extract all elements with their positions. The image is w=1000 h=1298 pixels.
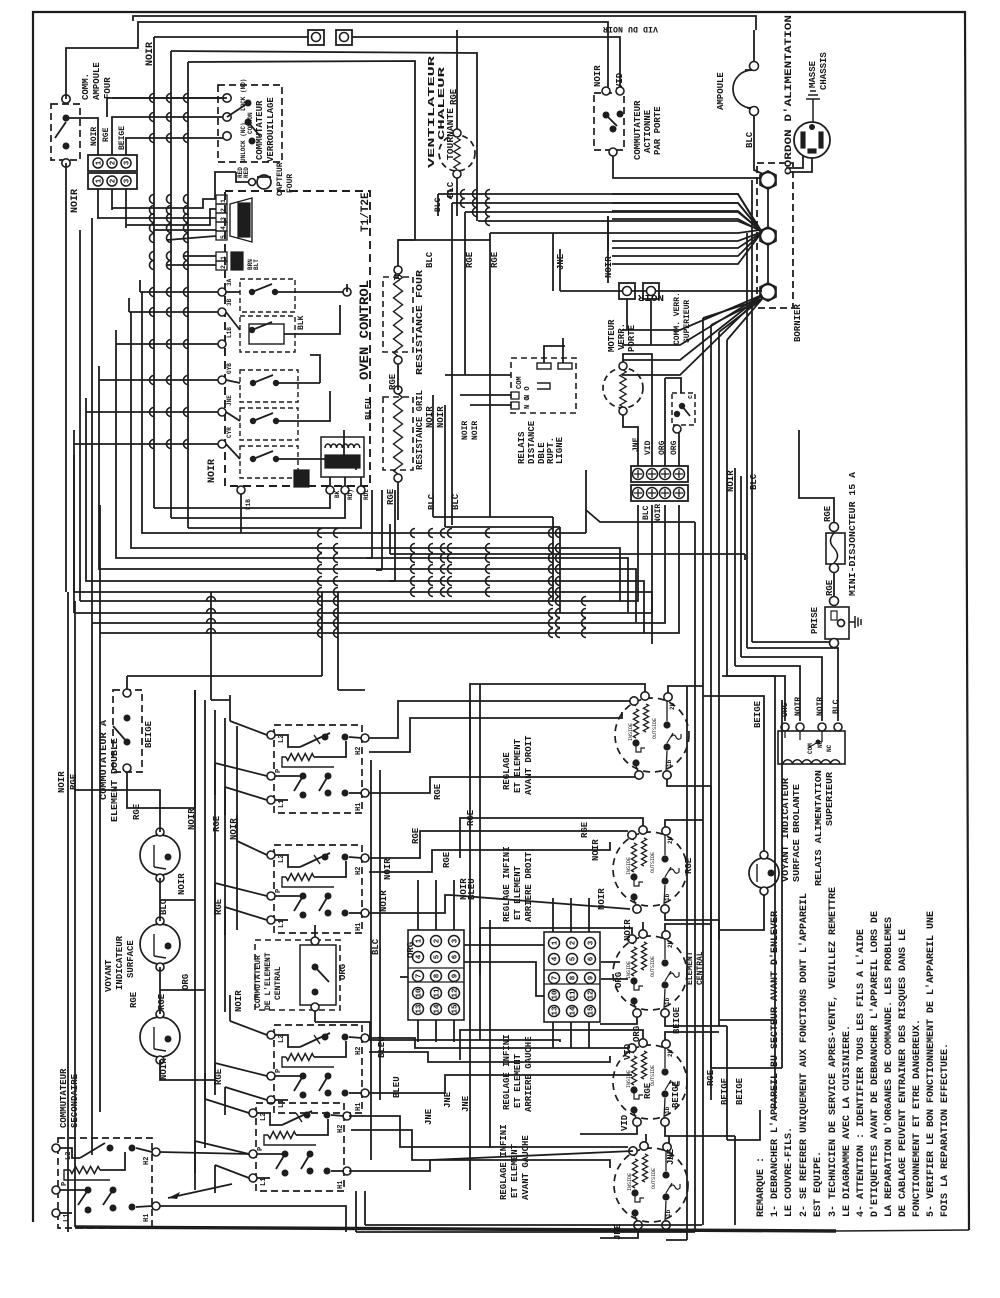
svg-text:BEIGE: BEIGE [735, 1077, 745, 1105]
svg-text:BK: BK [334, 490, 341, 498]
svg-text:1b: 1b [664, 893, 671, 901]
svg-text:BLC: BLC [434, 197, 443, 212]
surface element [613, 832, 687, 906]
svg-text:NO: NO [817, 740, 824, 748]
svg-text:ORG: ORG [338, 964, 348, 980]
svg-text:VID: VID [620, 1114, 630, 1131]
svg-text:LE COUVRE-FILS.: LE COUVRE-FILS. [784, 1127, 795, 1217]
left feed columns [210, 592, 212, 700]
connector block four [88, 155, 137, 171]
svg-text:3B: 3B [226, 298, 233, 306]
svg-text:8: 8 [570, 975, 578, 980]
svg-text:3: 3 [124, 178, 132, 183]
bornier fan wires [612, 194, 762, 232]
svg-text:4- ATTENTION : IDENTIFIER TOUS: 4- ATTENTION : IDENTIFIER TOUS LES FILS … [855, 929, 867, 1217]
svg-text:RGE: RGE [706, 1069, 716, 1086]
svg-text:CYR: CYR [226, 427, 233, 438]
svg-text:2b: 2b [667, 940, 674, 948]
svg-text:8: 8 [434, 973, 442, 978]
svg-text:NOIR: NOIR [234, 990, 244, 1012]
prise [830, 597, 839, 606]
svg-text:2: 2 [110, 160, 118, 165]
svg-text:BEIGE: BEIGE [753, 700, 763, 728]
svg-text:H1: H1 [355, 923, 363, 931]
svg-text:VID: VID [623, 1043, 633, 1060]
svg-text:11: 11 [570, 990, 578, 1000]
svg-text:BLEU: BLEU [364, 398, 374, 420]
svg-text:2: 2 [110, 178, 118, 183]
svg-text:2: 2 [220, 265, 227, 269]
svg-text:1: 1 [416, 938, 424, 943]
right column verticals bottom [686, 686, 688, 1240]
svg-text:H2: H2 [143, 1157, 151, 1165]
left long verticals bottom [67, 592, 69, 1232]
svg-text:AVANT DROIT: AVANT DROIT [524, 735, 534, 795]
svg-text:12: 12 [588, 990, 596, 1000]
svg-text:3: 3 [452, 938, 460, 943]
extra staircases [369, 712, 622, 752]
svg-text:BLC: BLC [749, 473, 759, 490]
svg-text:UNLOCK (NC): UNLOCK (NC) [240, 122, 247, 162]
terminal block [544, 932, 600, 1022]
svg-text:NOIR: NOIR [471, 421, 480, 440]
crossing bumps texture [150, 94, 155, 103]
svg-text:CORDON D'ALIMENTATION: CORDON D'ALIMENTATION [783, 15, 795, 175]
svg-text:MINI-DISJONCTEUR 15 A: MINI-DISJONCTEUR 15 A [848, 471, 858, 596]
svg-text:JNE: JNE [443, 1091, 453, 1108]
right beige bus [774, 676, 776, 1110]
svg-text:P: P [257, 1147, 265, 1151]
switch verrouillage [218, 85, 282, 162]
svg-text:BEIGE: BEIGE [144, 720, 154, 748]
svg-text:REGLAGE INFINI: REGLAGE INFINI [502, 1034, 512, 1110]
svg-text:JNE: JNE [613, 1223, 623, 1240]
connector 2x4 [631, 466, 688, 482]
oc connector strip1 [216, 195, 227, 204]
svg-text:JNE: JNE [424, 1108, 434, 1125]
svg-text:2: 2 [220, 208, 227, 212]
lamp connections [75, 790, 160, 832]
main cross bundle1 [141, 291, 143, 293]
svg-text:P: P [275, 1069, 283, 1073]
svg-text:FOUR: FOUR [103, 77, 113, 99]
svg-text:NOIR: NOIR [654, 504, 663, 523]
svg-text:NOIR: NOIR [207, 459, 218, 483]
block A-B connectors [464, 944, 544, 946]
svg-text:RESISTANCE GRIL: RESISTANCE GRIL [415, 390, 425, 470]
svg-text:RGE: RGE [490, 251, 500, 268]
svg-text:SUPERIEUR: SUPERIEUR [825, 771, 835, 826]
svg-text:NOIR: NOIR [593, 65, 603, 87]
svg-text:ET ELEMENT: ET ELEMENT [513, 865, 523, 920]
box L-side diagonals [230, 721, 267, 735]
svg-text:COMMUTATEUR: COMMUTATEUR [633, 100, 643, 160]
svg-text:OVEN CONTROL: OVEN CONTROL [357, 280, 372, 380]
svg-text:REMARQUE :: REMARQUE : [756, 1157, 767, 1217]
bottom long horizontals [356, 1231, 695, 1233]
resistance gril [394, 386, 402, 394]
bornier terminal strip [757, 163, 793, 308]
top bus wires [133, 16, 756, 30]
oven control box [225, 191, 370, 486]
svg-text:2b: 2b [669, 702, 676, 710]
right horizontals bottom [719, 1019, 775, 1021]
svg-text:7: 7 [552, 976, 560, 981]
svg-text:N C: N C [524, 396, 532, 409]
svg-text:SURFACE: SURFACE [126, 940, 136, 978]
svg-text:L1: L1 [63, 1214, 71, 1222]
svg-text:INSIDE: INSIDE [626, 857, 632, 875]
svg-text:ET ELEMENT: ET ELEMENT [510, 1143, 520, 1198]
svg-text:2: 2 [434, 938, 442, 943]
svg-text:1b: 1b [664, 997, 671, 1005]
main cross bundle2 [79, 230, 81, 601]
svg-text:NOIR: NOIR [623, 919, 633, 941]
svg-text:RELAIS: RELAIS [517, 431, 527, 464]
svg-text:NOIR: NOIR [726, 470, 736, 492]
svg-text:H1: H1 [143, 1214, 151, 1222]
svg-text:DISTANCE: DISTANCE [527, 420, 537, 464]
svg-text:NOIR: NOIR [70, 189, 81, 213]
svg-text:RGE: RGE [102, 127, 111, 142]
terminal block [408, 930, 464, 1020]
svg-text:3- TECHNICIEN DE SERVICE APRES: 3- TECHNICIEN DE SERVICE APRES-VENTE, VE… [828, 887, 839, 1217]
svg-text:6: 6 [588, 956, 596, 961]
svg-text:PAR PORTE: PAR PORTE [653, 106, 663, 155]
surface element [613, 936, 687, 1010]
svg-text:REGLAGE: REGLAGE [502, 752, 512, 790]
svg-text:INSIDE: INSIDE [626, 1070, 632, 1088]
svg-text:4: 4 [220, 226, 227, 230]
svg-text:VERROUILLAGE: VERROUILLAGE [266, 97, 276, 162]
svg-text:ORG: ORG [614, 972, 624, 988]
svg-text:ORG: ORG [406, 942, 416, 958]
svg-text:2b: 2b [667, 836, 674, 844]
svg-text:OUTSIDE: OUTSIDE [650, 956, 656, 977]
svg-text:1: 1 [96, 160, 104, 165]
svg-text:RESISTANCE FOUR: RESISTANCE FOUR [415, 269, 425, 375]
svg-text:AMPOULE: AMPOULE [92, 62, 102, 100]
svg-text:AMPOULE: AMPOULE [716, 72, 726, 110]
svg-text:5: 5 [434, 954, 442, 959]
svg-text:ORG: ORG [181, 974, 191, 990]
svg-text:BLC: BLC [427, 493, 437, 510]
box H-side to element staircases [369, 701, 630, 738]
svg-text:3: 3 [124, 160, 132, 165]
svg-text:1b: 1b [664, 1106, 671, 1114]
svg-text:7: 7 [416, 974, 424, 979]
svg-text:JNE: JNE [226, 395, 233, 406]
svg-text:1: 1 [220, 256, 227, 260]
oc connector strip2 [216, 252, 227, 261]
svg-text:BLEU: BLEU [467, 878, 477, 900]
svg-text:14: 14 [434, 1004, 442, 1014]
svg-text:5- VERIFIER LE BON FONCTIONNEM: 5- VERIFIER LE BON FONCTIONNEMENT DE L'A… [925, 911, 937, 1217]
svg-text:10: 10 [552, 990, 560, 1000]
svg-text:PRISE: PRISE [810, 606, 820, 634]
svg-text:H2: H2 [355, 867, 363, 875]
svg-text:1: 1 [552, 940, 560, 945]
svg-text:5: 5 [220, 235, 227, 239]
svg-text:SURFACE BROLANTE: SURFACE BROLANTE [792, 783, 802, 882]
svg-text:DE L'ELEMENT: DE L'ELEMENT [264, 952, 273, 1010]
svg-text:1: 1 [96, 178, 104, 183]
svg-text:INSIDE: INSIDE [626, 961, 632, 979]
oc transformer [321, 437, 364, 477]
svg-text:RGE: RGE [643, 1082, 653, 1099]
svg-text:NOIR: NOIR [177, 873, 187, 895]
infinite switch box [274, 845, 362, 933]
svg-text:3: 3 [588, 940, 596, 945]
lamp row connectors [194, 690, 196, 808]
svg-text:RGE: RGE [580, 821, 590, 838]
svg-text:LE DIAGRAMME AVEC LA CUISINIER: LE DIAGRAMME AVEC LA CUISINIERE. [842, 1025, 853, 1217]
svg-text:BEIGE: BEIGE [672, 1006, 682, 1034]
svg-text:5: 5 [570, 956, 578, 961]
svg-text:MOTEUR: MOTEUR [607, 319, 617, 352]
svg-text:BLC: BLC [832, 699, 841, 714]
svg-text:4: 4 [552, 956, 560, 961]
svg-text:RGE: RGE [69, 773, 79, 790]
svg-text:RED: RED [243, 167, 250, 178]
svg-text:RGE: RGE [411, 827, 421, 844]
element right-side runs [699, 685, 701, 687]
svg-text:2b: 2b [667, 1049, 674, 1057]
svg-text:DE CABLAGE PEUVENT ENTRAINER D: DE CABLAGE PEUVENT ENTRAINER DES RISQUES… [898, 929, 909, 1217]
bottom-left vertical columns extra [370, 760, 372, 1160]
capteur four [249, 179, 256, 186]
svg-text:4: 4 [416, 954, 424, 959]
svg-text:NOIR: NOIR [794, 697, 803, 716]
svg-text:JNE: JNE [666, 1148, 676, 1165]
svg-text:15: 15 [452, 1004, 460, 1014]
svg-text:ORG: ORG [632, 1026, 642, 1042]
svg-text:15: 15 [588, 1006, 596, 1016]
svg-text:VOYANT: VOYANT [104, 959, 114, 992]
svg-text:H1: H1 [355, 803, 363, 811]
svg-text:13: 13 [552, 1006, 560, 1016]
svg-text:H2: H2 [355, 1047, 363, 1055]
surface element [614, 1148, 688, 1222]
svg-text:RDL: RDL [363, 489, 370, 500]
svg-text:P: P [275, 769, 283, 773]
svg-text:COM: COM [516, 376, 524, 389]
svg-text:INSIDE: INSIDE [627, 1173, 633, 1191]
svg-text:RELAIS ALIMENTATION: RELAIS ALIMENTATION [814, 770, 824, 886]
svg-text:BLC: BLC [642, 505, 651, 520]
svg-text:INSIDE: INSIDE [628, 723, 634, 741]
svg-text:COMMON: COMMON [247, 112, 254, 134]
svg-text:OUTSIDE: OUTSIDE [651, 1168, 657, 1189]
svg-text:c: c [687, 395, 695, 399]
relais sup feeds [747, 648, 838, 721]
svg-text:NOIR: NOIR [591, 839, 601, 861]
svg-text:RGE: RGE [823, 505, 833, 522]
svg-text:FONCTIONNEMENT ET ETRE DANGERE: FONCTIONNEMENT ET ETRE DANGEREUX. [912, 1019, 923, 1217]
svg-text:CHASSIS: CHASSIS [819, 52, 829, 90]
svg-text:NOIR: NOIR [604, 256, 614, 278]
mini-disjoncteur 15A [799, 430, 834, 522]
svg-text:COMMUTATEUR: COMMUTATEUR [255, 100, 265, 160]
svg-text:H1: H1 [337, 1181, 345, 1189]
svg-text:COMM. VERR.: COMM. VERR. [673, 292, 682, 345]
svg-text:VENTILATEUR: VENTILATEUR [427, 55, 437, 168]
svg-text:RGE: RGE [129, 991, 139, 1008]
svg-text:EST EQUIPE.: EST EQUIPE. [813, 1151, 824, 1217]
svg-text:H2: H2 [337, 1125, 345, 1133]
svg-text:JNE: JNE [632, 437, 641, 452]
svg-text:BLT: BLT [253, 259, 260, 270]
bornier feed bundle [438, 194, 760, 230]
svg-text:T1/T2E: T1/T2E [360, 192, 372, 232]
svg-text:ACTIONNE: ACTIONNE [643, 109, 653, 153]
svg-text:13: 13 [416, 1004, 424, 1014]
svg-text:FOIS LA REPARATION EFFECTUEE.: FOIS LA REPARATION EFFECTUEE. [940, 1043, 951, 1217]
svg-text:9: 9 [452, 973, 460, 978]
svg-text:NOIR: NOIR [57, 771, 67, 793]
svg-text:P: P [275, 889, 283, 893]
svg-text:12: 12 [452, 988, 460, 998]
svg-text:2- SE REFERER UNIQUEMENT AUX F: 2- SE REFERER UNIQUEMENT AUX FONCTIONS D… [798, 893, 810, 1217]
svg-text:COMMUTATEUR: COMMUTATEUR [254, 955, 263, 1008]
svg-text:3A: 3A [226, 278, 233, 286]
svg-text:OUTSIDE: OUTSIDE [652, 718, 658, 739]
arrow to comm secondaire [168, 1184, 232, 1198]
svg-text:REGLAGE INFINI: REGLAGE INFINI [502, 846, 512, 922]
svg-text:VERR.: VERR. [617, 323, 627, 350]
svg-text:H2: H2 [355, 747, 363, 755]
svg-text:PORTE: PORTE [627, 324, 637, 352]
svg-text:AVANT GAUCHE: AVANT GAUCHE [521, 1135, 531, 1200]
svg-text:L1B: L1B [226, 327, 233, 338]
svg-text:JNE: JNE [556, 253, 566, 270]
svg-text:BORNIER: BORNIER [793, 304, 803, 342]
svg-text:1b: 1b [666, 759, 673, 767]
infinite switch box [274, 1025, 362, 1113]
svg-text:D'ETIQUETTES AVANT DE DEBRANCH: D'ETIQUETTES AVANT DE DEBRANCHER L'APPAR… [869, 911, 881, 1217]
svg-text:RGE: RGE [132, 803, 142, 820]
svg-text:MASSE: MASSE [808, 60, 818, 88]
svg-text:14: 14 [570, 1006, 578, 1016]
svg-text:RGE: RGE [442, 851, 452, 868]
svg-text:NOIR: NOIR [816, 697, 825, 716]
bornier bottom fans [560, 290, 762, 292]
svg-text:VID: VID [644, 440, 653, 455]
svg-text:NOIR: NOIR [597, 888, 607, 910]
oc relay group1 [240, 279, 295, 312]
squares noir pair [619, 283, 635, 299]
infinite switch box [274, 725, 362, 813]
svg-text:RGE: RGE [465, 251, 475, 268]
svg-text:9: 9 [588, 975, 596, 980]
svg-text:LIGNE: LIGNE [555, 436, 565, 464]
fuse squares top [308, 30, 324, 45]
svg-text:1b: 1b [665, 1209, 672, 1217]
svg-text:LOCK (NO): LOCK (NO) [240, 79, 247, 111]
wires bus to oc [112, 199, 216, 208]
svg-text:NC: NC [826, 744, 833, 752]
oc relay group2 [240, 370, 298, 402]
svg-text:BEIGE: BEIGE [671, 1080, 681, 1108]
svg-text:BLEU: BLEU [377, 1036, 387, 1058]
svg-text:3: 3 [220, 217, 227, 221]
svg-text:ELEMENT DOUBLE: ELEMENT DOUBLE [110, 737, 120, 822]
bornier lower fans [703, 299, 762, 318]
svg-text:COMM.: COMM. [81, 73, 91, 100]
svg-text:ARRIERE DROIT: ARRIERE DROIT [524, 851, 534, 922]
svg-text:GYB: GYB [226, 363, 233, 374]
block feeds [417, 880, 419, 930]
right long verticals [694, 522, 696, 1232]
surface element [615, 698, 689, 772]
svg-text:LA REPARATION D'ORGANES DE COM: LA REPARATION D'ORGANES DE COMMANDE. LES… [883, 917, 895, 1217]
oc bottom step-down wires [154, 494, 330, 508]
comm double connections [127, 675, 322, 677]
svg-text:INDICATEUR: INDICATEUR [115, 935, 125, 990]
svg-text:BLEU: BLEU [392, 1076, 402, 1098]
svg-text:SUPERIEUR: SUPERIEUR [683, 300, 692, 343]
svg-text:COM: COM [807, 743, 814, 754]
svg-text:BEIGE: BEIGE [720, 1077, 730, 1105]
svg-text:VID DU NOIR: VID DU NOIR [603, 24, 658, 33]
svg-text:H1: H1 [355, 1103, 363, 1111]
svg-text:RGE: RGE [433, 783, 443, 800]
bus verticals left [153, 37, 155, 508]
svg-text:CENTRAL: CENTRAL [274, 966, 283, 1000]
svg-text:RGE: RGE [212, 815, 222, 832]
svg-text:NOIR: NOIR [461, 421, 470, 440]
svg-text:OUTSIDE: OUTSIDE [650, 852, 656, 873]
svg-text:11: 11 [434, 988, 442, 998]
power plug [794, 122, 830, 158]
svg-text:NOIR: NOIR [383, 858, 393, 880]
svg-text:RGE: RGE [684, 857, 694, 874]
svg-text:BLC: BLC [425, 251, 435, 268]
svg-text:RGE: RGE [157, 993, 167, 1010]
svg-text:RD): RD) [347, 489, 354, 500]
svg-text:ORG: ORG [670, 440, 679, 455]
infinite switch box [256, 1103, 344, 1191]
svg-text:10: 10 [416, 988, 424, 998]
svg-text:BLK: BLK [297, 315, 306, 330]
relais distance dble rupt [511, 358, 576, 413]
svg-text:RGE: RGE [466, 809, 476, 826]
svg-text:CENTRAL: CENTRAL [696, 951, 705, 985]
svg-text:6: 6 [452, 954, 460, 959]
oc relay terminals [218, 288, 226, 296]
svg-text:2: 2 [570, 940, 578, 945]
svg-text:REGLAGE INFINI: REGLAGE INFINI [499, 1124, 509, 1200]
svg-text:1: 1 [220, 199, 227, 203]
svg-text:ET ELEMENT: ET ELEMENT [513, 738, 523, 793]
surface element [613, 1045, 687, 1119]
comm secondaire tails [160, 1152, 249, 1154]
